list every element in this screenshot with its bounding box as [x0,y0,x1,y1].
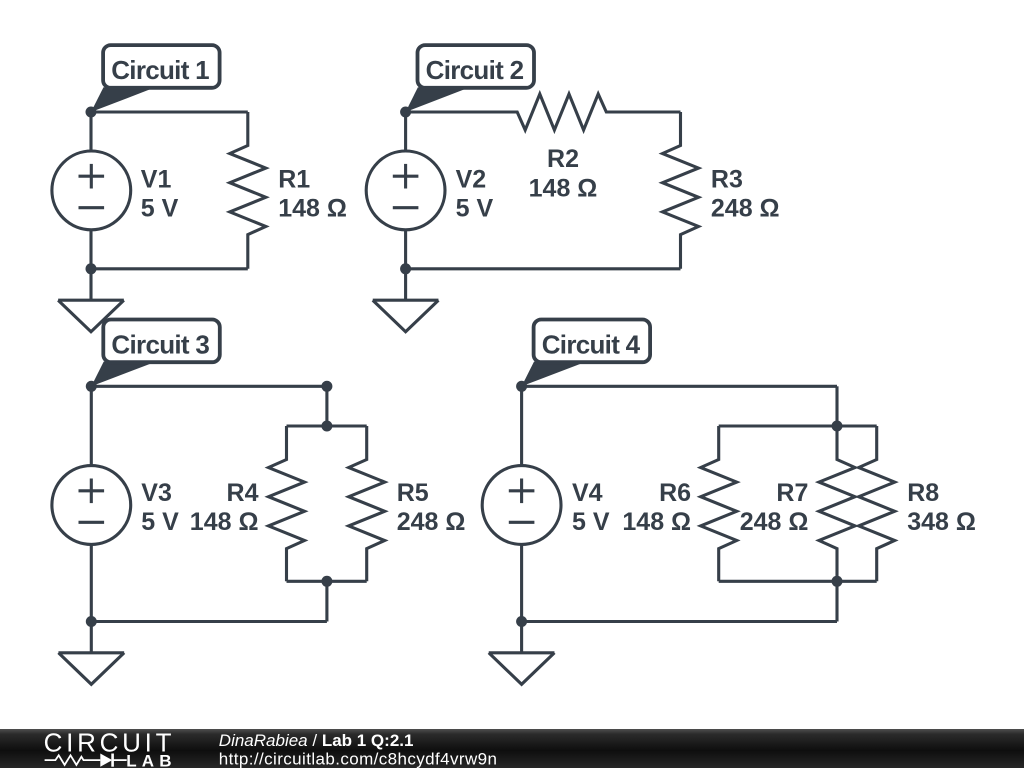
svg-text:V2: V2 [456,165,487,193]
svg-text:Circuit 3: Circuit 3 [111,329,209,359]
svg-text:DinaRabiea / Lab 1 Q:2.1: DinaRabiea / Lab 1 Q:2.1 [219,731,414,750]
svg-text:248 Ω: 248 Ω [397,508,466,536]
svg-text:248 Ω: 248 Ω [740,508,809,536]
svg-text:248 Ω: 248 Ω [711,195,780,223]
svg-text:5 V: 5 V [141,508,179,536]
svg-text:R6: R6 [659,479,691,507]
svg-text:R4: R4 [227,479,259,507]
svg-text:R1: R1 [278,165,310,193]
svg-text:V3: V3 [141,479,172,507]
svg-text:V4: V4 [572,479,603,507]
svg-text:Circuit 4: Circuit 4 [542,329,641,359]
svg-text:5 V: 5 V [456,195,494,223]
svg-text:Circuit 1: Circuit 1 [111,55,209,85]
svg-text:148 Ω: 148 Ω [529,174,598,202]
svg-text:Circuit 2: Circuit 2 [426,55,524,85]
svg-text:R7: R7 [776,479,808,507]
svg-text:R8: R8 [907,479,939,507]
svg-text:5 V: 5 V [141,195,179,223]
svg-text:148 Ω: 148 Ω [622,508,691,536]
svg-text:348 Ω: 348 Ω [907,508,976,536]
svg-text:R2: R2 [547,145,579,173]
svg-text:148 Ω: 148 Ω [190,508,259,536]
svg-text:R3: R3 [711,165,743,193]
svg-text:V1: V1 [141,165,172,193]
svg-text:http://circuitlab.com/c8hcydf4: http://circuitlab.com/c8hcydf4vrw9n [219,749,498,768]
svg-text:148 Ω: 148 Ω [278,195,347,223]
svg-text:LAB: LAB [126,751,177,768]
svg-text:5 V: 5 V [572,508,610,536]
svg-text:R5: R5 [397,479,429,507]
